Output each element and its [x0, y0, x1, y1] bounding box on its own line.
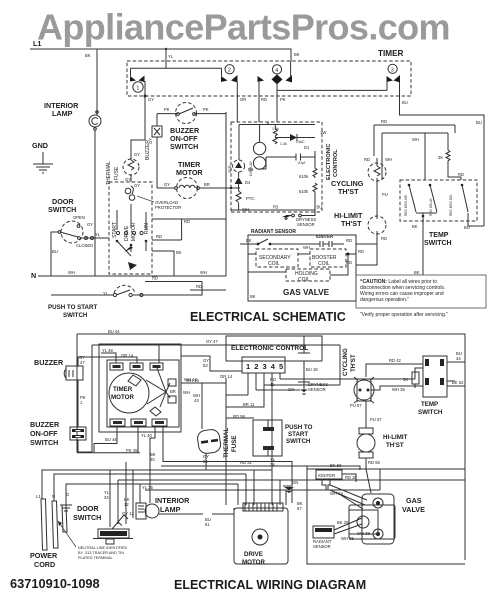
- wire RD lower row: [190, 289, 226, 291]
- interior lamp drop wire: [96, 49, 98, 115]
- svg-text:OR: OR: [240, 97, 246, 102]
- svg-text:SENSOR: SENSOR: [313, 544, 331, 549]
- svg-text:BU 44: BU 44: [105, 437, 117, 442]
- timer terminals bottom: [110, 419, 167, 426]
- wire console top inner: [92, 345, 340, 452]
- junction dot GY: [144, 95, 147, 98]
- svg-text:BK: BK: [176, 250, 182, 255]
- wire EC top rail: [239, 122, 315, 160]
- svg-text:WH: WH: [183, 390, 190, 395]
- svg-text:MOTOR: MOTOR: [111, 394, 134, 401]
- svg-text:WH: WH: [412, 137, 419, 142]
- svg-text:GY: GY: [125, 177, 131, 182]
- svg-text:.01μf: .01μf: [297, 161, 306, 165]
- cycling thermostat TH1 (wiring): [342, 348, 374, 408]
- svg-text:RD: RD: [346, 238, 352, 243]
- svg-text:GND: GND: [32, 141, 48, 150]
- svg-text:BU 19: BU 19: [306, 367, 318, 372]
- svg-text:PK 45: PK 45: [126, 448, 138, 453]
- ground GN (wiring): [283, 480, 298, 493]
- wire buzzer GY up: [78, 357, 130, 366]
- svg-text:D9: D9: [248, 167, 254, 172]
- svg-text:NEUTRAL LINE IDENTIFIED: NEUTRAL LINE IDENTIFIED: [78, 546, 127, 550]
- wire GY chain: [156, 114, 158, 188]
- svg-text:PK: PK: [203, 107, 209, 112]
- wire YL40 drop: [150, 426, 155, 490]
- SCR dashed circle: [228, 160, 245, 173]
- interior lamp bulb: [89, 111, 101, 131]
- svg-text:TH'ST: TH'ST: [338, 187, 359, 196]
- svg-text:CONTROL: CONTROL: [333, 149, 339, 177]
- wire GY47 to terminal 3: [101, 344, 159, 363]
- buzzer BZ1: [145, 126, 162, 160]
- secondary coil L1C: [256, 249, 298, 267]
- neutral note: [58, 521, 127, 560]
- svg-text:SWITCH: SWITCH: [424, 240, 452, 247]
- svg-text:IGNITER: IGNITER: [318, 473, 335, 478]
- svg-text:SWITCH: SWITCH: [170, 142, 198, 151]
- svg-text:53: 53: [203, 363, 208, 368]
- hi-limit thermostat TH2: [334, 185, 387, 242]
- svg-text:610k: 610k: [299, 174, 309, 179]
- svg-text:BU 44: BU 44: [108, 329, 120, 334]
- svg-text:LAMP: LAMP: [52, 109, 73, 118]
- svg-text:57: 57: [297, 506, 302, 511]
- svg-text:WH 36: WH 36: [392, 387, 405, 392]
- wire lamp to N: [94, 130, 96, 276]
- wire temp switch right: [447, 362, 465, 386]
- svg-text:1 2 3 4 5: 1 2 3 4 5: [246, 362, 284, 371]
- diode D4: [235, 172, 251, 191]
- svg-text:TH'ST: TH'ST: [350, 354, 357, 372]
- svg-text:PTC: PTC: [246, 196, 254, 201]
- wire BU from timer 3: [400, 96, 485, 226]
- door switch S1: [48, 197, 93, 248]
- wire RD42: [366, 364, 423, 377]
- svg-text:3: 3: [391, 67, 394, 73]
- wire temp BK down: [422, 221, 424, 275]
- svg-text:RD 42: RD 42: [389, 358, 402, 363]
- svg-text:63710910-1098: 63710910-1098: [10, 576, 100, 591]
- timer motor TM (wiring): [109, 368, 170, 413]
- wire OR14 to terminal 2: [126, 357, 137, 363]
- timer contact 2: [221, 65, 238, 96]
- resistor 1.5k: [272, 125, 279, 138]
- temp switch TS1 feed box: [374, 119, 455, 180]
- svg-text:HI-LIMIT: HI-LIMIT: [383, 434, 408, 441]
- svg-text:RD: RD: [458, 172, 464, 177]
- svg-text:L1: L1: [36, 494, 41, 499]
- svg-text:REG MED DEL: REG MED DEL: [449, 194, 453, 216]
- svg-text:PLATED TERMINAL: PLATED TERMINAL: [78, 556, 113, 560]
- svg-text:WH: WH: [200, 270, 207, 275]
- svg-text:VALVE: VALVE: [402, 505, 425, 514]
- svg-text:RD: RD: [156, 234, 162, 239]
- svg-text:ELECTRICAL WIRING DIAGRAM: ELECTRICAL WIRING DIAGRAM: [174, 578, 366, 592]
- svg-text:CORD: CORD: [34, 560, 55, 569]
- svg-text:43: 43: [194, 398, 199, 403]
- svg-text:FUSE: FUSE: [231, 435, 238, 452]
- drive motor windings labels: [112, 204, 150, 270]
- timer assembly box: [99, 344, 181, 432]
- overload protector OL: [125, 186, 181, 210]
- wire N bus: [38, 275, 226, 277]
- electronic control EC (wiring): [226, 336, 322, 373]
- resistor PTC: [236, 191, 254, 212]
- svg-text:TIMER: TIMER: [113, 386, 133, 393]
- svg-text:GY: GY: [164, 182, 170, 187]
- svg-text:FUSE: FUSE: [114, 166, 120, 180]
- wire lamp BU: [159, 508, 234, 514]
- svg-text:DRIVE: DRIVE: [244, 551, 263, 558]
- svg-text:RD: RD: [381, 236, 387, 241]
- wire coils bus: [248, 254, 356, 275]
- wire YL48 to terminal 1: [101, 353, 116, 363]
- svg-text:CLOSED: CLOSED: [76, 243, 93, 248]
- svg-text:BU: BU: [317, 205, 323, 210]
- svg-text:4: 4: [275, 68, 278, 74]
- wire right spine: [226, 448, 286, 505]
- svg-text:PU 57: PU 57: [370, 417, 382, 422]
- svg-text:TH'ST: TH'ST: [386, 442, 404, 449]
- drive motor M1 (wiring): [234, 503, 288, 566]
- electronic control EC dashed box: [231, 122, 339, 212]
- svg-text:BU: BU: [52, 249, 58, 254]
- svg-text:RD: RD: [381, 119, 387, 124]
- svg-text:BY .313 TRACER AND TIN: BY .313 TRACER AND TIN: [78, 551, 124, 555]
- svg-text:RD: RD: [346, 260, 352, 265]
- svg-text:BU: BU: [402, 100, 408, 105]
- svg-text:BU: BU: [476, 120, 482, 125]
- wire RD31 run: [161, 465, 307, 467]
- svg-text:BK: BK: [412, 224, 418, 229]
- svg-text:RD: RD: [152, 276, 158, 281]
- svg-text:SWITCH: SWITCH: [418, 409, 443, 416]
- wire L1 bus: [30, 49, 291, 61]
- svg-text:RD: RD: [358, 249, 364, 254]
- door switch S1 (wiring): [73, 504, 133, 544]
- svg-text:BK: BK: [85, 53, 91, 58]
- svg-text:BK: BK: [294, 52, 300, 57]
- svg-text:PUSH TO START: PUSH TO START: [48, 304, 97, 311]
- wire YL35 run: [145, 469, 380, 490]
- svg-text:D1: D1: [304, 145, 310, 150]
- resistor R1 610k: [299, 151, 317, 179]
- timer contact 3: [387, 64, 401, 96]
- wire igniter leads: [330, 474, 367, 509]
- svg-text:N: N: [31, 271, 36, 280]
- svg-text:PU: PU: [382, 192, 388, 197]
- wire timer feed line: [131, 67, 222, 69]
- igniter IG (wiring): [316, 470, 358, 496]
- svg-text:610k: 610k: [299, 189, 309, 194]
- dryness sensor DS (wiring): [288, 361, 328, 395]
- svg-text:1W: 1W: [320, 130, 326, 135]
- wire EC left rail: [225, 112, 227, 276]
- timer TM dashed box: [127, 49, 411, 96]
- drive motor M1 dashed box: [109, 177, 152, 274]
- svg-text:2: 2: [228, 68, 231, 74]
- console box outline: [77, 334, 465, 560]
- wire RD mid row: [145, 281, 202, 283]
- svg-text:40: 40: [150, 457, 155, 462]
- wire GY from timer 1 down: [131, 96, 145, 150]
- temp switch TS1 (wiring): [418, 356, 447, 416]
- svg-text:PUSH TO: PUSH TO: [285, 424, 313, 431]
- caution box note: [356, 275, 486, 308]
- svg-text:WH 16: WH 16: [186, 378, 199, 383]
- wire GY53 run to control strip: [181, 356, 242, 371]
- svg-text:POWER: POWER: [30, 551, 58, 560]
- svg-text:dangerous operation.”: dangerous operation.”: [360, 297, 409, 303]
- svg-text:GY: GY: [148, 97, 154, 102]
- svg-text:L1: L1: [33, 39, 41, 48]
- svg-text:REG MED AIR: REG MED AIR: [404, 194, 408, 216]
- wire BU44 drop: [94, 426, 117, 453]
- svg-text:BR: BR: [204, 182, 210, 187]
- svg-text:IGNITER: IGNITER: [316, 234, 333, 239]
- svg-text:GY 47: GY 47: [206, 339, 218, 344]
- svg-text:CYCLING: CYCLING: [342, 348, 349, 376]
- svg-text:BR 11: BR 11: [243, 402, 255, 407]
- junction dot: [230, 187, 233, 190]
- wire RD from motor: [152, 219, 226, 240]
- svg-text:RD: RD: [261, 97, 267, 102]
- timer contact 1: [130, 68, 145, 96]
- svg-text:ELECTRONIC CONTROL: ELECTRONIC CONTROL: [231, 345, 308, 352]
- connector pair: [91, 237, 94, 240]
- svg-text:WH 25: WH 25: [341, 536, 354, 541]
- wire BK56: [307, 466, 360, 470]
- svg-text:PK: PK: [280, 97, 286, 102]
- ground GND: [32, 141, 53, 173]
- svg-text:PROTECTOR: PROTECTOR: [155, 205, 181, 210]
- svg-text:SWITCH: SWITCH: [30, 438, 58, 447]
- svg-text:SWITCH: SWITCH: [73, 513, 101, 522]
- svg-text:ON-OFF: ON-OFF: [30, 429, 58, 438]
- svg-text:SENSOR: SENSOR: [308, 387, 326, 392]
- svg-text:THERMAL: THERMAL: [106, 161, 112, 185]
- wire WH36: [371, 386, 423, 390]
- wire door sw common left: [51, 232, 58, 276]
- booster coil L2C: [310, 249, 346, 267]
- timer contact 4: [258, 49, 293, 96]
- svg-text:RD: RD: [364, 157, 370, 162]
- wire buzzer sw down: [77, 440, 79, 453]
- buzzer on-off switch S3 (wiring): [30, 420, 86, 447]
- wire PK45 drop: [77, 426, 140, 453]
- push to start switch S2 (wiring): [253, 420, 313, 456]
- wire timer internal common: [277, 89, 387, 91]
- svg-text:BUZZER: BUZZER: [34, 358, 64, 367]
- svg-text:RD 55: RD 55: [368, 460, 381, 465]
- svg-text:BUZZER: BUZZER: [30, 420, 60, 429]
- gas valve enclosure box: [307, 469, 465, 564]
- radiant sensor RS (wiring): [313, 518, 362, 549]
- svg-text:BK: BK: [246, 238, 252, 243]
- svg-text:1: 1: [137, 86, 140, 92]
- wire R3 row: [231, 198, 315, 210]
- svg-text:12: 12: [124, 502, 129, 507]
- interior lamp IL (wiring): [136, 496, 190, 519]
- wire YL drop to timer: [165, 49, 167, 68]
- svg-text:GAS VALVE: GAS VALVE: [283, 288, 330, 297]
- wire push-start row: [51, 282, 202, 296]
- svg-text:YL: YL: [168, 54, 174, 59]
- svg-text:GAS: GAS: [406, 496, 422, 505]
- igniter IG: [298, 234, 352, 250]
- svg-text:D4: D4: [245, 180, 251, 185]
- svg-text:BR: BR: [170, 389, 176, 394]
- wire power cord runs: [42, 470, 272, 501]
- svg-text:34: 34: [104, 495, 109, 500]
- junction dot: [347, 253, 350, 256]
- svg-text:RADIANT SENSOR: RADIANT SENSOR: [251, 229, 296, 235]
- svg-text:WH 38: WH 38: [357, 531, 370, 536]
- capacitor C1: [260, 154, 315, 170]
- wire BK from motor: [152, 251, 174, 277]
- wire OR from timer 2 down: [236, 96, 238, 122]
- gas valve GV (wiring): [349, 494, 425, 544]
- svg-text:MOTOR: MOTOR: [176, 168, 203, 177]
- junction dot L1/YL: [165, 48, 167, 50]
- svg-text:RD: RD: [184, 219, 190, 224]
- svg-text:AppliancePartsPros.com: AppliancePartsPros.com: [37, 7, 450, 48]
- svg-text:“Verify proper operation after: “Verify proper operation after servicing…: [360, 312, 448, 318]
- svg-text:44: 44: [456, 356, 461, 361]
- svg-text:RD: RD: [196, 284, 202, 289]
- svg-text:INTERIOR: INTERIOR: [155, 496, 190, 505]
- wire buzzer PK down: [77, 380, 79, 427]
- svg-text:GY: GY: [87, 222, 93, 227]
- power cord PC: [30, 492, 69, 569]
- wire BK40 run: [163, 426, 292, 503]
- svg-text:TEMP: TEMP: [429, 232, 449, 239]
- EC antenna terminal: [298, 336, 310, 353]
- dryness sensor DS: [282, 210, 316, 227]
- resistor R4 3K: [438, 146, 461, 180]
- timer aux contacts: [150, 379, 176, 416]
- hi-limit thermostat TH2 (wiring): [357, 401, 408, 469]
- wire timer motor row: [157, 187, 240, 189]
- svg-text:YL: YL: [95, 232, 101, 237]
- svg-text:WH: WH: [303, 245, 310, 250]
- wire mid runs: [181, 345, 415, 470]
- svg-text:LAMP: LAMP: [160, 505, 181, 514]
- svg-text:TH'ST: TH'ST: [341, 219, 362, 228]
- cycling thermostat TH1: [331, 157, 388, 197]
- push to start switch S2: [48, 285, 143, 319]
- resistor R2 610k: [299, 183, 317, 198]
- svg-text:COIL: COIL: [298, 277, 310, 283]
- wire RD55 into valve: [366, 469, 371, 493]
- svg-text:WH: WH: [68, 270, 75, 275]
- svg-text:SWITCH: SWITCH: [48, 205, 76, 214]
- wire PK from timer 4 down: [276, 96, 278, 122]
- svg-text:BK: BK: [250, 294, 256, 299]
- svg-text:ELECTRICAL SCHEMATIC: ELECTRICAL SCHEMATIC: [190, 310, 346, 324]
- svg-text:3K: 3K: [438, 155, 443, 160]
- wire door/lamp feeds: [110, 462, 465, 527]
- buzzer on-off switch S3: [157, 103, 226, 152]
- svg-text:SCR: SCR: [228, 165, 232, 173]
- svg-text:YL 40: YL 40: [141, 433, 152, 438]
- radiant sensor RS: [240, 229, 298, 245]
- svg-text:ELECTRONIC: ELECTRONIC: [326, 144, 332, 180]
- svg-text:YL 35: YL 35: [142, 485, 153, 490]
- svg-text:GY: GY: [148, 138, 153, 144]
- wire temp BU to BU rail: [468, 221, 484, 226]
- svg-text:SWITCH: SWITCH: [286, 438, 311, 445]
- temp switch TS1: [400, 180, 477, 247]
- svg-text:OPEN: OPEN: [73, 215, 85, 220]
- EC transistor Q1: [253, 142, 265, 154]
- diode D1 DIAC: [273, 130, 326, 150]
- svg-text:BK: BK: [414, 270, 420, 275]
- svg-text:GY: GY: [134, 183, 140, 188]
- timer motor TM2: [164, 160, 210, 199]
- ground chassis: [60, 497, 72, 511]
- timer terminals top: [110, 363, 163, 370]
- svg-text:47: 47: [80, 360, 85, 365]
- thermal fuse F1 (wiring): [197, 428, 238, 464]
- svg-text:DOOR: DOOR: [77, 504, 99, 513]
- wire RD from timer 4 down: [258, 96, 260, 122]
- buzzer BZ1 (wiring): [34, 355, 85, 380]
- svg-text:RUN: RUN: [144, 223, 150, 234]
- svg-text:GY: GY: [134, 152, 140, 157]
- svg-text:MOTOR: MOTOR: [242, 559, 265, 566]
- svg-text:SWITCH: SWITCH: [63, 312, 88, 319]
- svg-text:PU 57: PU 57: [350, 403, 362, 408]
- timer inner box: [107, 360, 179, 427]
- resistor 3K (wiring): [403, 368, 423, 388]
- svg-text:TIMER: TIMER: [378, 49, 404, 58]
- svg-text:START: START: [288, 431, 308, 438]
- svg-text:SENSOR: SENSOR: [297, 222, 315, 227]
- svg-text:COIL: COIL: [268, 261, 280, 267]
- EC transistor Q2: [253, 157, 265, 169]
- svg-text:WH: WH: [385, 157, 392, 162]
- svg-text:R3: R3: [273, 205, 279, 210]
- svg-text:PK: PK: [164, 107, 170, 112]
- svg-text:RD 31: RD 31: [240, 460, 253, 465]
- wire hi-limit to gas valve: [356, 242, 377, 265]
- svg-text:YL 48: YL 48: [102, 348, 113, 353]
- wire EC terminals down: [248, 373, 280, 448]
- svg-text:1.3k: 1.3k: [280, 142, 287, 146]
- wire igniter RD: [356, 243, 377, 245]
- gas valve GV box: [248, 235, 356, 301]
- thermal fuse F1: [106, 150, 140, 188]
- svg-text:61: 61: [205, 522, 210, 527]
- svg-text:GN: GN: [292, 480, 298, 485]
- connector pair: [85, 237, 88, 240]
- holding coil L3C: [286, 269, 330, 283]
- svg-text:TEMP: TEMP: [421, 401, 438, 408]
- svg-text:COIL: COIL: [318, 261, 330, 267]
- wire door sw YL to motor: [80, 237, 109, 239]
